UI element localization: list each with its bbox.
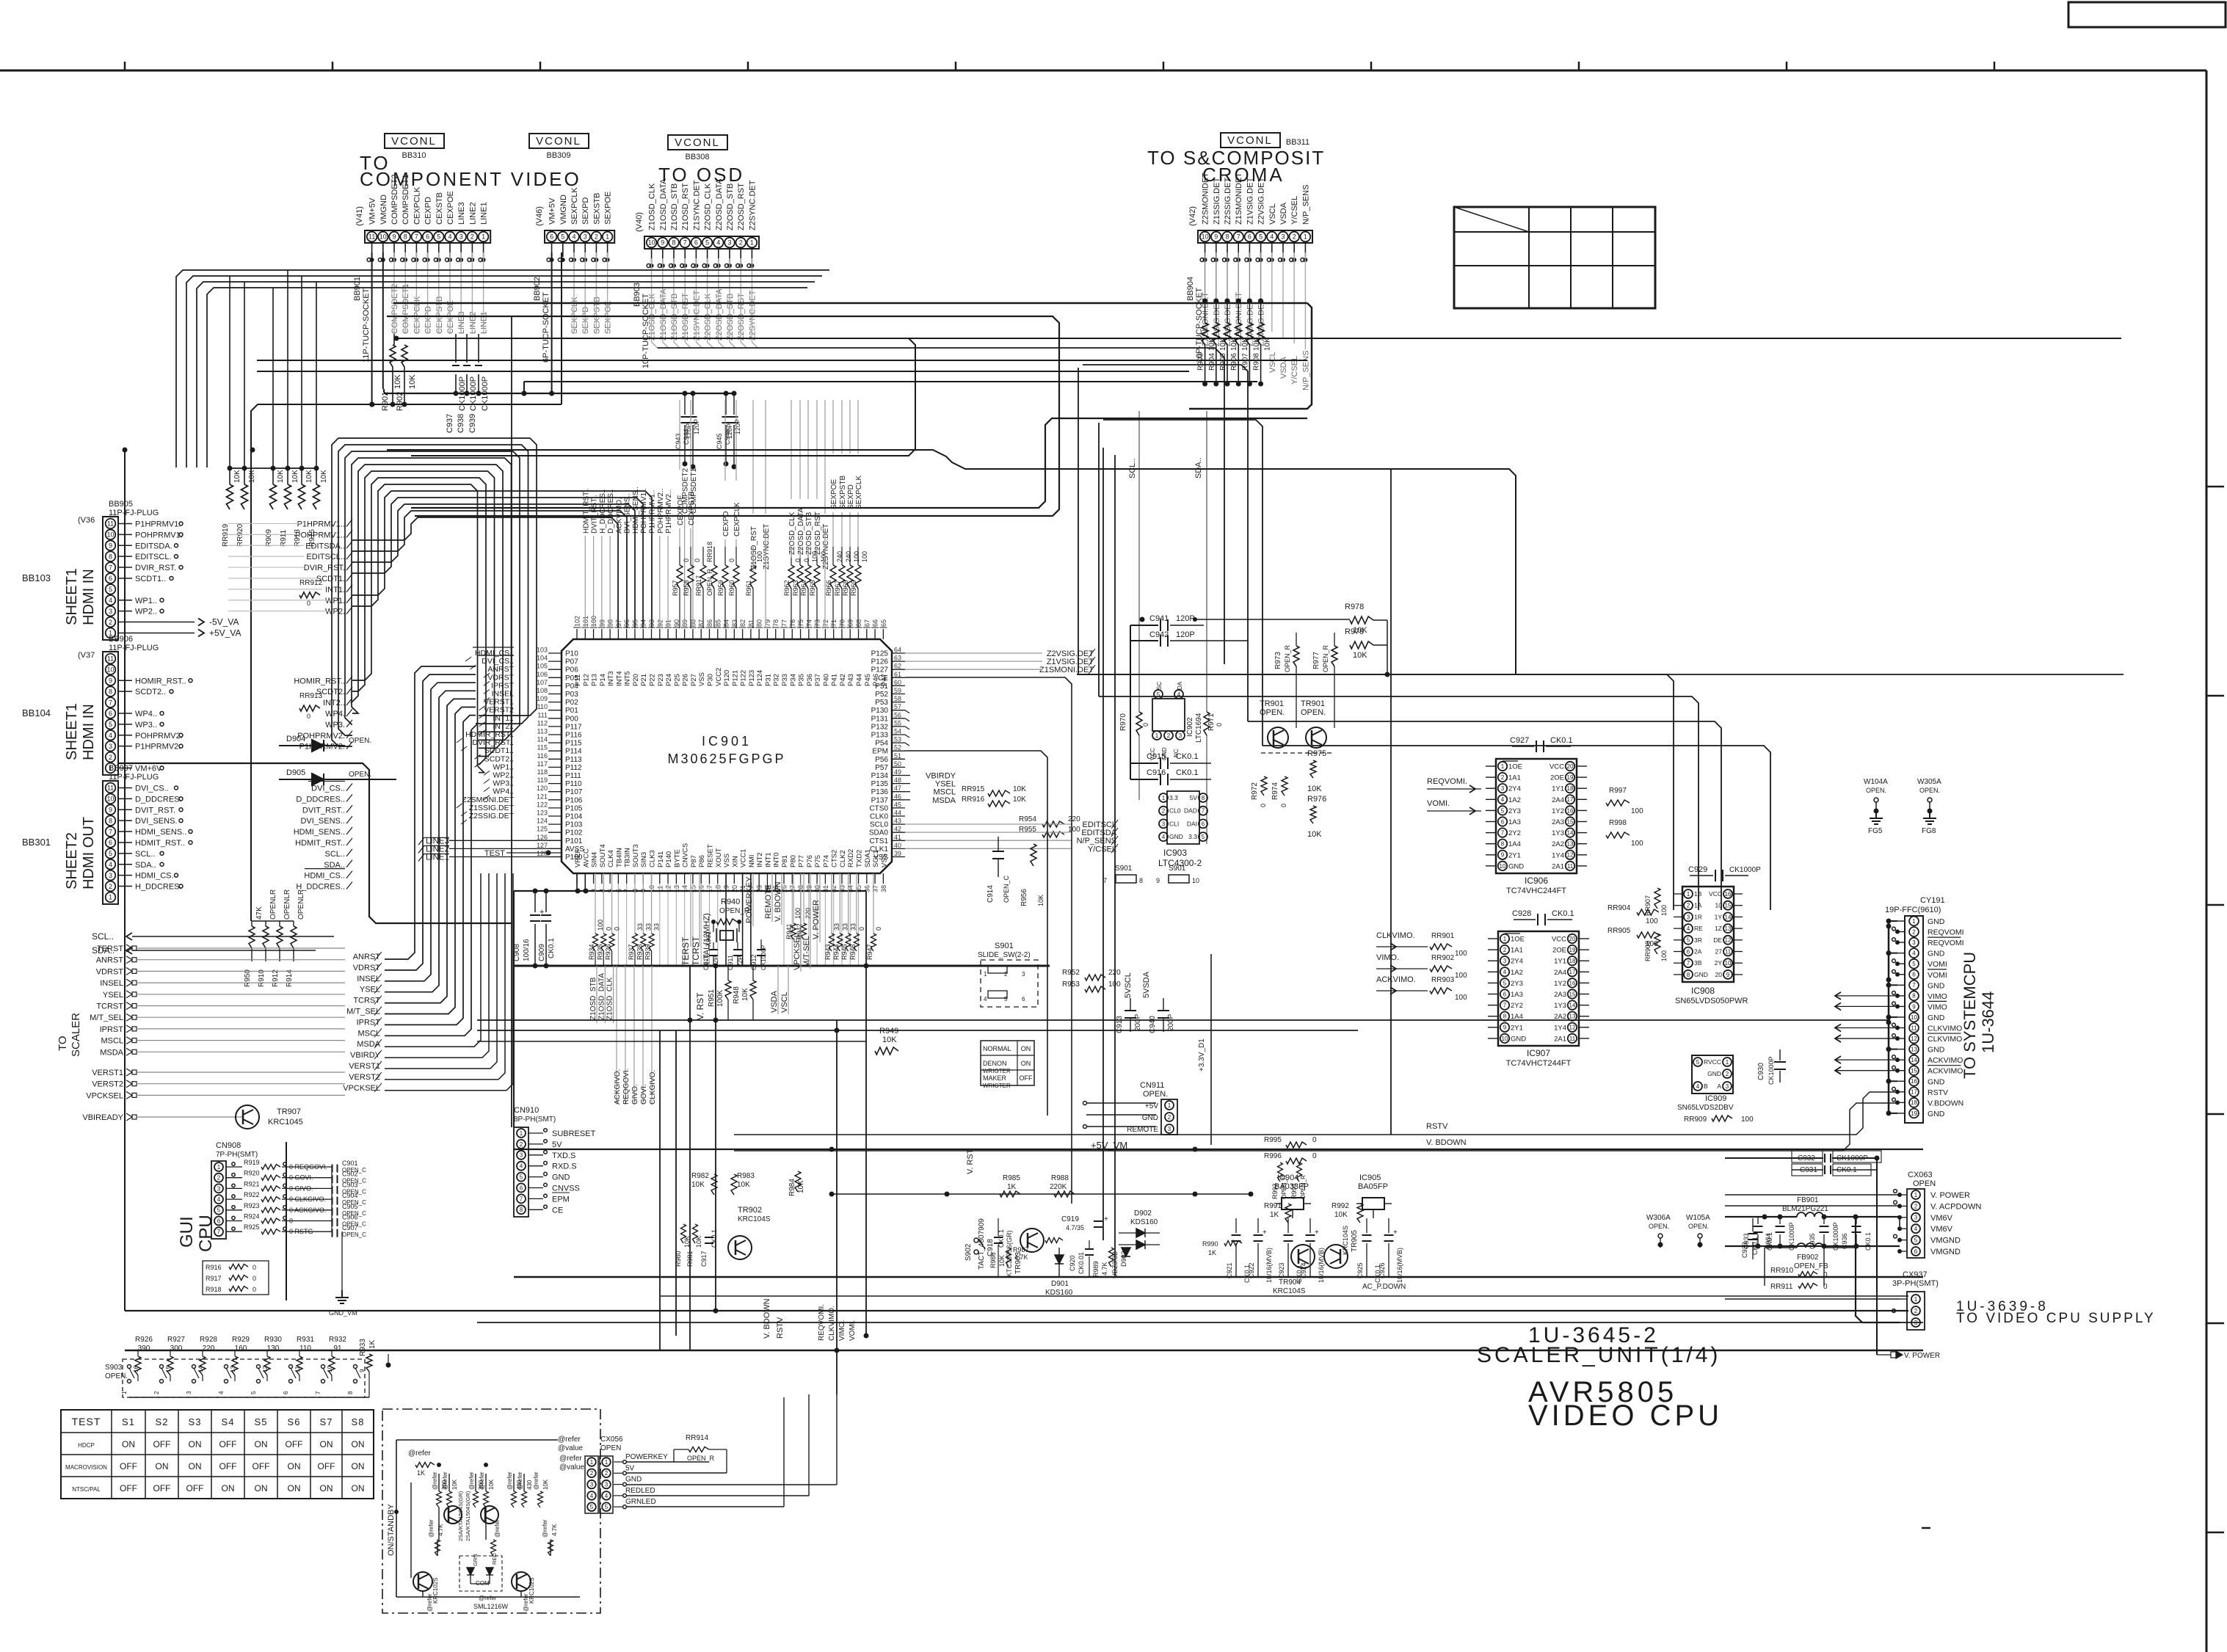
svg-text:XIN: XIN [731, 856, 739, 867]
svg-text:0: 0 [253, 1264, 256, 1271]
svg-text:2: 2 [153, 1391, 160, 1394]
svg-text:16: 16 [1569, 980, 1576, 986]
svg-text:11P-FJ-PLUG: 11P-FJ-PLUG [109, 509, 159, 517]
svg-text:2: 2 [605, 1470, 608, 1477]
harness TO SCALER lower flags verticals [385, 873, 481, 1047]
svg-text:R947: R947 [866, 944, 873, 960]
long horizontal bus y491 [257, 360, 1307, 361]
svg-text:P111: P111 [565, 772, 581, 780]
svg-text:D_DDCRES.: D_DDCRES. [135, 795, 182, 804]
svg-text:9: 9 [1912, 1003, 1916, 1010]
connector BB901 11P-TUCP-SOCKET [365, 230, 490, 243]
svg-text:240: 240 [845, 551, 852, 562]
long horizontal bus y506 [257, 371, 1189, 372]
svg-text:SLIDE_SW(2-2): SLIDE_SW(2-2) [978, 951, 1031, 959]
svg-text:@refer: @refer [428, 1519, 435, 1538]
svg-text:10K: 10K [542, 1479, 549, 1490]
svg-text:VM6V: VM6V [1930, 1214, 1953, 1223]
svg-text:1Y2: 1Y2 [1552, 807, 1564, 815]
capacitor C938 CK1000P [466, 334, 468, 363]
svg-text:R911: R911 [280, 529, 288, 547]
svg-text:S7: S7 [320, 1416, 333, 1427]
svg-text:LINE3: LINE3 [457, 311, 466, 334]
svg-text:BB901: BB901 [353, 277, 362, 301]
svg-text:100: 100 [1646, 917, 1658, 925]
svg-text:R925: R925 [244, 1223, 260, 1231]
svg-text:7: 7 [1501, 829, 1505, 836]
svg-text:P30: P30 [706, 674, 714, 686]
svg-text:HDMI_CS.: HDMI_CS. [135, 872, 174, 881]
resistor R958 [688, 565, 694, 589]
svg-text:TC74VHC244FT: TC74VHC244FT [1506, 887, 1566, 895]
svg-text:CK0.1: CK0.1 [1176, 752, 1199, 761]
svg-text:14: 14 [1911, 1057, 1917, 1063]
svg-text:R990: R990 [1202, 1240, 1218, 1248]
svg-text:R972: R972 [1251, 782, 1259, 800]
svg-text:1: 1 [605, 1459, 608, 1466]
svg-text:REMOTE: REMOTE [764, 884, 773, 919]
svg-text:DAD: DAD [1184, 807, 1197, 815]
svg-text:R945: R945 [841, 944, 849, 960]
svg-text:4: 4 [1270, 233, 1274, 241]
svg-text:4: 4 [1687, 925, 1690, 932]
resistors R903-R908 10K pullups [1205, 301, 1206, 323]
svg-text:B: B [1704, 1082, 1708, 1090]
svg-text:SIN3: SIN3 [640, 852, 648, 867]
svg-text:0: 0 [253, 1286, 256, 1293]
svg-text:18: 18 [1567, 785, 1574, 792]
svg-text:R969: R969 [850, 580, 857, 596]
svg-text:2OE: 2OE [1552, 947, 1566, 955]
resistor R964 [805, 565, 811, 589]
svg-text:IPRST: IPRST [357, 1018, 381, 1027]
svg-text:3.3: 3.3 [1169, 794, 1178, 801]
rail R985 R988 y1627 [832, 1193, 1251, 1195]
svg-text:10K: 10K [320, 470, 328, 483]
svg-text:18: 18 [1569, 958, 1576, 964]
svg-text:P45: P45 [864, 674, 872, 686]
svg-text:CK1000P: CK1000P [481, 376, 490, 411]
svg-text:RR904: RR904 [1607, 904, 1631, 912]
svg-text:2: 2 [1687, 903, 1690, 909]
svg-text:S1: S1 [122, 1416, 135, 1427]
svg-text:R985: R985 [1003, 1174, 1020, 1182]
svg-text:6: 6 [550, 233, 553, 241]
svg-text:7: 7 [109, 699, 112, 706]
svg-text:1K: 1K [368, 1339, 377, 1349]
resistors R950 47K R910 R912 R914 OPENLR [252, 920, 294, 922]
svg-text:VREF: VREF [574, 848, 582, 867]
svg-text:10K: 10K [1264, 338, 1272, 351]
svg-text:11: 11 [1569, 1036, 1576, 1042]
svg-text:8: 8 [1225, 233, 1229, 241]
svg-text:8: 8 [1687, 972, 1690, 978]
svg-text:Z1OSD_DATA: Z1OSD_DATA [597, 973, 606, 1020]
svg-text:65: 65 [880, 619, 887, 627]
VCONL connector label BB311 [1221, 133, 1280, 148]
svg-text:CK1000P: CK1000P [458, 376, 467, 411]
op-amp U1 - microcontroller IC901 M30625FGPGP body [562, 639, 892, 873]
svg-text:16: 16 [133, 1366, 139, 1372]
svg-text:1: 1 [1914, 1192, 1918, 1198]
svg-text:VERST2: VERST2 [92, 1080, 123, 1089]
svg-text:S901: S901 [1115, 865, 1133, 873]
svg-text:6: 6 [217, 1218, 221, 1224]
svg-text:DVI_CS..: DVI_CS.. [135, 784, 169, 793]
long rails y1390 1404 1419 [477, 1019, 1890, 1021]
svg-text:1A1: 1A1 [1511, 947, 1523, 955]
svg-text:2Y3: 2Y3 [1511, 980, 1523, 988]
svg-text:SCL0: SCL0 [870, 821, 888, 829]
capacitor bank C943-C946 120P [684, 393, 686, 415]
C941 line to R978 [1195, 619, 1350, 620]
svg-text:7: 7 [109, 828, 112, 835]
svg-text:HDMI_CS..: HDMI_CS.. [304, 872, 345, 881]
svg-text:SN65LVDS2DBV: SN65LVDS2DBV [1677, 1104, 1734, 1112]
svg-text:3: 3 [1726, 1083, 1729, 1090]
svg-text:4: 4 [520, 1163, 523, 1170]
svg-text:R901: R901 [381, 392, 390, 411]
svg-text:VDRST: VDRST [96, 967, 124, 976]
tick bottom middle [1922, 1527, 1930, 1529]
svg-text:BB906: BB906 [109, 635, 133, 644]
svg-text:VM+6V: VM+6V [135, 764, 162, 773]
svg-text:10K: 10K [451, 1479, 458, 1490]
svg-text:VOMI.: VOMI. [1427, 799, 1450, 808]
svg-text:Z2SSIG.DET: Z2SSIG.DET [1224, 178, 1232, 225]
svg-text:4: 4 [984, 996, 987, 1003]
svg-text:Z1SSIG.DET: Z1SSIG.DET [1213, 178, 1221, 225]
svg-text:7: 7 [683, 239, 687, 247]
svg-text:(V42): (V42) [1188, 206, 1197, 226]
svg-text:3: 3 [1022, 971, 1025, 978]
svg-text:10K: 10K [1307, 830, 1322, 839]
IC901 bottom pins 1-38 [576, 873, 578, 884]
svg-text:RSTV: RSTV [1928, 1088, 1948, 1097]
svg-text:C934: C934 [1765, 1233, 1772, 1249]
svg-text:KRC1045: KRC1045 [268, 1118, 303, 1127]
svg-text:KRC102S: KRC102S [432, 1577, 439, 1604]
svg-text:P136: P136 [871, 788, 889, 796]
svg-text:CX063: CX063 [1908, 1171, 1933, 1179]
svg-text:5VSCL: 5VSCL [1124, 972, 1133, 998]
svg-text:108: 108 [537, 687, 548, 694]
svg-text:10K: 10K [1334, 1211, 1348, 1219]
svg-text:TB4IN: TB4IN [615, 848, 623, 867]
svg-text:POHPRMV2.: POHPRMV2. [135, 732, 183, 741]
svg-text:3: 3 [459, 233, 463, 241]
svg-text:AC_P.DOWN: AC_P.DOWN [1362, 1283, 1406, 1291]
resistor R962 [788, 565, 794, 589]
svg-text:MAKER: MAKER [983, 1074, 1007, 1082]
svg-text:CEXPOE: CEXPOE [677, 495, 685, 525]
svg-text:VIMO.: VIMO. [1376, 953, 1399, 962]
svg-text:OPEN.: OPEN. [1260, 708, 1285, 717]
svg-text:10K: 10K [691, 1181, 705, 1189]
svg-text:37: 37 [872, 885, 879, 892]
wire Z1SYNC.DET [765, 528, 766, 628]
svg-text:102: 102 [574, 616, 581, 627]
svg-text:(V41): (V41) [355, 206, 364, 226]
svg-text:V. BDOWN: V. BDOWN [1426, 1138, 1467, 1147]
connector BB904 10P-TUCP-SOCKET [1198, 230, 1312, 243]
svg-text:2: 2 [595, 233, 598, 241]
svg-text:@refer: @refer [559, 1455, 582, 1463]
svg-text:5: 5 [217, 1207, 221, 1214]
svg-text:SCDT1..: SCDT1.. [135, 575, 166, 583]
svg-text:R909: R909 [265, 529, 273, 547]
svg-text:IC907: IC907 [1527, 1048, 1550, 1058]
svg-text:SHEET1: SHEET1 [64, 568, 80, 625]
svg-text:P103: P103 [565, 821, 583, 829]
svg-text:2: 2 [1004, 971, 1008, 978]
svg-text:@refer: @refer [506, 1471, 513, 1490]
svg-text:X901: X901 [705, 931, 712, 947]
svg-text:@refer: @refer [533, 1471, 540, 1490]
verticals mid bottom [659, 1030, 661, 1350]
svg-text:0: 0 [307, 600, 310, 607]
svg-text:RVCC: RVCC [1704, 1058, 1721, 1066]
svg-text:12: 12 [1569, 1025, 1576, 1031]
svg-text:2: 2 [1501, 774, 1505, 781]
svg-text:REDLED: REDLED [625, 1487, 655, 1495]
svg-text:11: 11 [107, 785, 114, 792]
svg-text:HDMI_SENS..: HDMI_SENS.. [135, 828, 186, 837]
svg-text:P36: P36 [806, 674, 814, 686]
svg-text:10: 10 [1192, 877, 1199, 884]
svg-text:49: 49 [894, 768, 901, 776]
feeder verticals midright [1078, 368, 1079, 674]
svg-text:EDITSDA..: EDITSDA.. [305, 542, 345, 550]
svg-text:C922: C922 [1248, 1262, 1255, 1278]
IC901 right pins 57-53 hooks [905, 710, 909, 713]
svg-text:110: 110 [537, 703, 548, 710]
svg-text:CK0.1: CK0.1 [1864, 1232, 1872, 1251]
svg-text:VCC: VCC [1550, 763, 1564, 771]
svg-text:CEXPD: CEXPD [424, 197, 433, 225]
IC909 SN65LVDS2DBV [1692, 1055, 1733, 1094]
heavy horizontal y613 [387, 450, 1516, 674]
svg-text:100: 100 [1741, 1116, 1754, 1124]
svg-text:8: 8 [1139, 877, 1143, 884]
svg-text:RR913: RR913 [299, 692, 323, 700]
svg-text:80: 80 [756, 619, 763, 627]
svg-text:VCC1: VCC1 [740, 849, 748, 867]
capacitor C941 120P [1130, 625, 1158, 626]
svg-text:S902: S902 [964, 1243, 973, 1261]
svg-text:VM+5V: VM+5V [368, 197, 377, 225]
capacitor C942 120P [1130, 640, 1158, 641]
svg-text:ON: ON [255, 1439, 268, 1449]
svg-text:57: 57 [894, 703, 901, 710]
svg-text:VCONL: VCONL [391, 135, 437, 148]
svg-text:DE: DE [1713, 936, 1722, 944]
CE wire loop [905, 677, 1072, 1204]
svg-text:VCC2: VCC2 [715, 668, 723, 686]
svg-text:@refer: @refer [468, 1471, 475, 1490]
svg-text:114: 114 [537, 736, 548, 743]
svg-text:86: 86 [706, 619, 713, 627]
svg-text:10K: 10K [408, 374, 417, 389]
svg-text:RR919: RR919 [222, 523, 230, 547]
svg-text:IC905: IC905 [1359, 1173, 1381, 1182]
svg-text:14: 14 [197, 1366, 204, 1372]
svg-text:VM6V: VM6V [1930, 1225, 1953, 1234]
svg-text:POWERKEY: POWERKEY [745, 876, 754, 923]
svg-text:VERST1: VERST1 [92, 1069, 123, 1077]
svg-text:IC903: IC903 [1163, 848, 1187, 858]
connector BB903 10P-TUCP-SOCKET [644, 236, 759, 249]
svg-text:4: 4 [1914, 1226, 1918, 1232]
svg-text:41: 41 [894, 834, 901, 841]
svg-text:59: 59 [894, 687, 901, 694]
svg-text:S901: S901 [995, 942, 1014, 950]
svg-text:SHEET1: SHEET1 [64, 703, 80, 760]
svg-text:9: 9 [1503, 1025, 1507, 1031]
ferrite FB902 OPEN_FB [1797, 1243, 1823, 1248]
svg-text:IPRST: IPRST [100, 1025, 124, 1034]
svg-text:15: 15 [165, 1366, 172, 1372]
svg-text:53: 53 [894, 736, 901, 743]
resistor R901 10K [393, 334, 395, 345]
svg-text:0: 0 [858, 927, 865, 931]
svg-text:RR903: RR903 [1431, 976, 1455, 984]
svg-text:P125: P125 [871, 650, 889, 658]
svg-text:OPEN_FB: OPEN_FB [1794, 1262, 1828, 1270]
svg-text:OPEN_C: OPEN_C [1003, 875, 1010, 903]
svg-text:R976: R976 [1307, 795, 1326, 804]
svg-text:GND: GND [1707, 1070, 1721, 1077]
TEST switch table [61, 1410, 374, 1499]
svg-text:0: 0 [803, 558, 810, 562]
svg-text:120: 120 [537, 785, 548, 792]
svg-text:R914: R914 [286, 969, 294, 987]
svg-text:C930: C930 [1757, 1063, 1765, 1080]
svg-text:P107: P107 [565, 788, 583, 796]
bus below S903 [129, 1397, 369, 1398]
svg-text:@refer: @refer [408, 1449, 431, 1458]
svg-text:VCONL: VCONL [536, 135, 581, 148]
svg-text:P124: P124 [756, 670, 764, 686]
heavy +5V_VM rail [514, 1149, 1923, 1150]
svg-text:8: 8 [347, 1391, 354, 1394]
svg-text:WP4..: WP4.. [135, 710, 157, 718]
svg-text:SC: SC [1156, 682, 1163, 690]
svg-text:OFF: OFF [120, 1461, 137, 1471]
svg-text:TO VIDEO CPU SUPPLY: TO VIDEO CPU SUPPLY [1956, 1311, 2156, 1326]
bus under IC901 y1316 heavy [514, 965, 1050, 967]
svg-text:C933: C933 [1743, 1233, 1750, 1249]
svg-text:C936: C936 [1841, 1233, 1848, 1249]
svg-text:GRNLED: GRNLED [625, 1498, 656, 1506]
wire Z2SYNC.DET [824, 528, 826, 628]
border top line [0, 70, 2206, 72]
svg-text:C917: C917 [700, 1251, 708, 1267]
svg-text:7: 7 [1912, 982, 1916, 989]
svg-text:VIMO: VIMO [1928, 992, 1947, 1001]
svg-text:IC902: IC902 [1186, 717, 1194, 737]
svg-text:ON: ON [189, 1439, 202, 1449]
svg-text:R933: R933 [359, 1339, 367, 1356]
svg-text:-5V_VA: -5V_VA [209, 617, 239, 627]
svg-text:@value: @value [558, 1444, 583, 1452]
svg-text:Z1VSIG.DET: Z1VSIG.DET [1246, 178, 1254, 225]
svg-text:0: 0 [875, 927, 882, 931]
svg-text:R971: R971 [1207, 713, 1216, 731]
svg-text:LINE2: LINE2 [468, 311, 477, 334]
svg-text:ANRST: ANRST [353, 953, 381, 961]
svg-text:FG5: FG5 [1868, 827, 1883, 835]
svg-text:CK0.1: CK0.1 [1176, 768, 1199, 777]
svg-text:CEXPD: CEXPD [424, 306, 433, 334]
svg-text:2Y: 2Y [1715, 959, 1723, 967]
svg-text:200P: 200P [1167, 1014, 1175, 1031]
svg-text:10K: 10K [393, 374, 402, 389]
svg-text:13: 13 [1725, 925, 1732, 932]
svg-text:R973: R973 [1274, 652, 1282, 669]
svg-text:RR911: RR911 [1770, 1283, 1793, 1291]
svg-text:43: 43 [894, 818, 901, 825]
svg-text:R921: R921 [244, 1180, 260, 1187]
svg-text:RR909: RR909 [1684, 1116, 1707, 1124]
svg-text:R979: R979 [1345, 627, 1364, 636]
connector BB907 11P-FJ-PLUG [103, 781, 118, 904]
svg-text:63: 63 [894, 655, 901, 662]
svg-text:S4: S4 [222, 1416, 235, 1427]
svg-text:VSS: VSS [880, 854, 888, 867]
svg-text:OPEN.: OPEN. [1143, 1090, 1168, 1099]
svg-text:81: 81 [747, 619, 755, 627]
VCONL connector label BB310 [385, 134, 444, 148]
svg-text:2A3: 2A3 [1552, 818, 1564, 826]
svg-text:R970: R970 [1119, 713, 1127, 731]
svg-text:1: 1 [482, 233, 485, 241]
svg-text:OPEN.: OPEN. [1866, 787, 1886, 794]
svg-text:W104A: W104A [1864, 778, 1888, 786]
svg-text:300: 300 [170, 1344, 183, 1353]
svg-text:+: + [1315, 1229, 1319, 1237]
svg-text:EDITSDA.: EDITSDA. [135, 542, 172, 550]
svg-text:Z1OSD_DATA: Z1OSD_DATA [659, 288, 668, 341]
svg-text:8: 8 [404, 233, 407, 241]
svg-text:4: 4 [1912, 950, 1916, 957]
svg-text:1OE: 1OE [1508, 763, 1522, 771]
svg-text:SDA..: SDA.. [1194, 457, 1203, 479]
svg-text:10: 10 [106, 666, 114, 674]
svg-text:CEXPOE: CEXPOE [446, 191, 455, 225]
svg-text:R957: R957 [672, 580, 679, 596]
svg-text:5VSDA: 5VSDA [1142, 971, 1151, 998]
svg-text:0: 0 [1260, 804, 1267, 807]
svg-text:2A1: 2A1 [1554, 1035, 1566, 1043]
svg-text:2: 2 [1912, 928, 1916, 935]
svg-text:R951: R951 [708, 989, 716, 1007]
IC903 LTC4300-2 [1167, 791, 1199, 844]
svg-text:OPEN_C: OPEN_C [342, 1231, 366, 1238]
svg-text:2: 2 [1162, 808, 1166, 815]
svg-text:BB301: BB301 [22, 837, 51, 848]
svg-text:ON: ON [288, 1461, 301, 1471]
svg-text:TC74VHCT244FT: TC74VHCT244FT [1506, 1059, 1572, 1068]
svg-text:2SA/KTA1504S(GR): 2SA/KTA1504S(GR) [457, 1491, 464, 1541]
svg-text:POWERKEY: POWERKEY [625, 1453, 668, 1461]
svg-text:OFF: OFF [253, 1461, 270, 1471]
capacitor C939 CK1000P [478, 334, 479, 363]
svg-text:W306A: W306A [1646, 1214, 1671, 1222]
svg-text:KRC104S: KRC104S [1273, 1287, 1306, 1295]
svg-text:BB905: BB905 [109, 500, 133, 509]
capacitor C915 CK0.1 [1130, 763, 1158, 764]
